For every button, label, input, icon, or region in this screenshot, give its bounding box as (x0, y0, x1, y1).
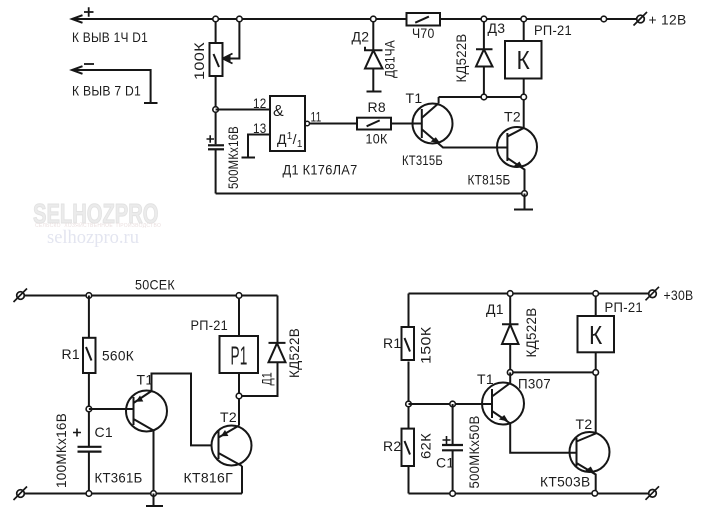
resistor R8 (357, 118, 391, 130)
svg-text:РП-21: РП-21 (534, 22, 572, 38)
svg-text:КТ315Б: КТ315Б (402, 152, 443, 168)
junction T1 collector / ground (151, 491, 157, 497)
junction node pin12/cap (213, 107, 219, 113)
plus sign (84, 7, 94, 16)
wire pot bottom to node (215, 76, 217, 144)
diode Д1 КД522В (left circuit) (277, 296, 279, 343)
junction C1 top (450, 401, 456, 407)
transistor T2 КТ816Г (PNP) (212, 426, 252, 466)
svg-text:Д2: Д2 (352, 29, 370, 45)
relay Р1 РП-21 (238, 296, 240, 337)
svg-text:С1: С1 (95, 424, 114, 440)
transistor T1 П307 (NPN) (482, 383, 524, 425)
junction C1 bottom (86, 491, 92, 497)
terminal +30V (649, 290, 657, 298)
svg-text:РП-21: РП-21 (605, 299, 644, 315)
wire pin11 to R8 (310, 123, 358, 125)
bottom rail of top circuit (216, 193, 525, 195)
arrow to pin 14 (plus output) (72, 15, 83, 23)
svg-text:КТ503В: КТ503В (540, 474, 591, 490)
transistor T2 КТ503В (NPN) (570, 432, 610, 472)
cap plus sign (207, 135, 215, 142)
svg-text:+ 12В: + 12В (649, 12, 687, 28)
transistor T1 КТ361Б (PNP) (126, 391, 167, 432)
svg-text:Т1: Т1 (477, 371, 494, 387)
potentiometer 100K body (215, 19, 217, 43)
svg-text:Д1: Д1 (259, 372, 275, 386)
terminal bar of minus lead (144, 102, 158, 104)
svg-text:КД522В: КД522В (453, 34, 469, 83)
resistor R1 560К (88, 296, 90, 338)
junction bottom rail / emitter (522, 191, 528, 197)
svg-text:Д3: Д3 (488, 20, 506, 36)
svg-text:Д81ЧА: Д81ЧА (382, 40, 398, 78)
svg-text:Д1: Д1 (486, 301, 504, 317)
svg-text:560К: 560К (102, 348, 135, 364)
terminal top-left (17, 292, 25, 300)
svg-text:КД522В: КД522В (523, 308, 539, 358)
svg-text:500МКх16В: 500МКх16В (225, 126, 241, 189)
svg-text:R2: R2 (383, 438, 402, 454)
pot wiper wire (226, 19, 239, 59)
svg-text:К: К (517, 45, 531, 75)
wire cap to bottom rail (215, 149, 217, 193)
junction pot top (213, 16, 219, 22)
relay РП-21 coil K (523, 19, 525, 41)
wire diode node to relay node (510, 371, 596, 373)
svg-text:+30В: +30В (664, 287, 694, 303)
svg-text:Р1: Р1 (231, 341, 248, 371)
wire R2 to bottom rail (408, 466, 410, 494)
watermark SELHOZPRO (33, 198, 158, 230)
svg-text:К ВЫВ 7 D1: К ВЫВ 7 D1 (72, 83, 141, 99)
ground bar pin13 (242, 157, 256, 159)
wire R1 to node (408, 362, 410, 429)
minus sign (84, 63, 94, 65)
svg-text:РП-21: РП-21 (191, 317, 229, 333)
capacitor C1 100МК (78, 446, 102, 448)
svg-text:62К: 62К (418, 432, 434, 459)
svg-text:R1: R1 (62, 346, 81, 362)
svg-text:Т1: Т1 (406, 90, 423, 106)
wire node to T1 base (89, 408, 134, 410)
svg-text:100МКх16В: 100МКх16В (53, 413, 69, 488)
svg-text:12: 12 (253, 95, 267, 111)
svg-text:150К: 150К (418, 326, 434, 364)
junction node (406, 401, 412, 407)
svg-text:Т2: Т2 (576, 416, 593, 432)
svg-text:КТ816Г: КТ816Г (184, 470, 234, 486)
svg-text:Т2: Т2 (220, 409, 237, 425)
left column / resistor R1 150К (408, 294, 410, 327)
wire node to T1 base (409, 403, 493, 405)
svg-text:Т2: Т2 (504, 109, 521, 125)
bottom rail (right circuit) (409, 493, 650, 495)
resistor 470 (407, 13, 441, 26)
connector circle on rail (601, 16, 607, 22)
terminal bottom-left (17, 490, 25, 498)
ground of top circuit (524, 194, 526, 210)
capacitor 500МК plates (208, 144, 224, 146)
svg-text:П307: П307 (518, 376, 551, 392)
output inversion bubble pin 11 (305, 121, 310, 126)
junction T2 emitter (592, 491, 598, 497)
svg-text:&: & (273, 103, 284, 120)
wiper arrowhead (223, 55, 231, 61)
svg-text:11: 11 (311, 109, 322, 125)
junction R1 top (86, 293, 92, 299)
relay К РП-21 (right circuit) (595, 294, 597, 317)
capacitor C1 500МКх50В (452, 404, 454, 445)
svg-text:500МКх50В: 500МКх50В (466, 416, 482, 489)
wire: minus lead (72, 70, 151, 103)
svg-text:Ч70: Ч70 (412, 25, 435, 41)
arrow to pin 7 (minus) (72, 66, 83, 74)
diode Д1 КД522В (right circuit) (509, 294, 511, 325)
svg-text:Д1/1: Д1/1 (277, 131, 303, 150)
svg-text:К ВЫВ 1Ч D1: К ВЫВ 1Ч D1 (72, 29, 148, 45)
resistor R2 62К (402, 429, 415, 466)
ground (left circuit) (153, 494, 155, 507)
terminal bottom-right (649, 490, 657, 498)
svg-text:10К: 10К (366, 131, 388, 147)
svg-text:С1: С1 (436, 455, 455, 471)
junction node base/cap (86, 406, 92, 412)
pin 13 wire (248, 135, 270, 158)
svg-text:100К: 100К (191, 41, 207, 80)
junction C1 bottom (450, 491, 456, 497)
transistor Q2 КТ815Б (497, 127, 537, 167)
wire R8 to T1 base (391, 123, 422, 125)
transistor Q1 КТ315Б (413, 104, 453, 144)
zener D2 Д814А (372, 19, 374, 50)
wire R1 bottom to node (88, 373, 90, 446)
bottom rail (25, 493, 243, 495)
junction wiper on rail (237, 16, 243, 22)
svg-text:КТ815Б: КТ815Б (468, 172, 511, 188)
IC U1 К176ЛА7 body (270, 96, 305, 151)
diode D3 КД522В (483, 19, 485, 49)
svg-text:КТ361Б: КТ361Б (95, 470, 143, 486)
wire: top +12V rail left section (72, 18, 407, 20)
junction relay bottom / diode / T2 emitter (236, 393, 242, 399)
collector net wire T1->relay (439, 96, 524, 98)
top rail (25, 295, 278, 297)
svg-text:50СЕК: 50СЕК (135, 277, 175, 293)
top rail (409, 293, 650, 295)
svg-text:К: К (589, 320, 603, 350)
svg-text:Д1 К176ЛА7: Д1 К176ЛА7 (283, 162, 358, 178)
svg-text:КД522В: КД522В (286, 328, 302, 378)
terminal +12V (637, 15, 645, 23)
svg-text:R1: R1 (383, 335, 402, 351)
wire: rail right of resistor 470 (440, 18, 637, 20)
wire node to pin 12 (216, 109, 270, 111)
svg-text:Т1: Т1 (137, 372, 154, 388)
svg-text:R8: R8 (368, 99, 387, 115)
